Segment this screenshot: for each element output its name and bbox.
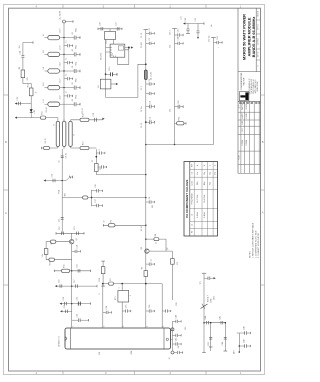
wire T1 bottom left: [42, 147, 97, 150]
svg-text:CHK D.MILLER 4-13: CHK D.MILLER 4-13: [251, 79, 253, 94]
svg-text:TP1: TP1: [200, 281, 202, 284]
svg-text:B 4188: B 4188: [246, 113, 248, 118]
bypass cap C1: [64, 32, 80, 39]
svg-text:BANDS A-B 66-88MHz: BANDS A-B 66-88MHz: [251, 17, 256, 58]
svg-text:C15: C15: [77, 264, 79, 267]
svg-text:C49: C49: [244, 340, 246, 343]
svg-text:R2: R2: [177, 262, 179, 264]
svg-text:.12uH: .12uH: [60, 45, 62, 50]
wire U1 left pins: [106, 48, 111, 53]
svg-text:C16: C16: [58, 280, 60, 283]
capacitor C17 series: [59, 217, 64, 222]
svg-text:R13: R13: [83, 142, 85, 145]
svg-text:C55: C55: [178, 100, 180, 103]
choke L2: [45, 52, 65, 56]
svg-text:C46: C46: [222, 342, 224, 345]
resistor R4: [40, 111, 45, 119]
bypass cap C7: [64, 58, 73, 65]
wire U1 pins right: [125, 48, 129, 50]
svg-text:C1: C1: [191, 172, 193, 174]
capacitor C22 inline: [60, 284, 62, 287]
wire bias feed: [23, 43, 33, 56]
wire module feeds: [103, 284, 162, 328]
svg-text:C5 .01: C5 .01: [141, 123, 143, 128]
wire to driver bus: [96, 174, 146, 176]
transformer T1 winding 2: [63, 121, 66, 146]
svg-text:C14: C14: [77, 245, 79, 248]
svg-text:U1: U1: [112, 53, 114, 55]
capacitor C61: [239, 344, 250, 347]
wire detector: [237, 333, 240, 352]
terminal bar top: [144, 29, 149, 31]
capacitor C37: [146, 259, 155, 266]
choke L4: [45, 85, 65, 89]
wire emitter network: [54, 270, 90, 272]
svg-text:R25: R25: [179, 117, 181, 120]
capacitor C57 inline: [221, 321, 223, 324]
svg-text:R5 10: R5 10: [141, 226, 143, 231]
svg-text:1 202: 1 202: [242, 121, 244, 125]
resistor R21: [108, 224, 115, 227]
trimmer box T2: [118, 291, 129, 303]
resistor R24: [171, 259, 175, 265]
op-amp U1 bias IC: [110, 44, 125, 57]
svg-text:1u: 1u: [66, 74, 68, 76]
capacitor C36: [146, 197, 155, 204]
svg-text:+: +: [218, 47, 220, 48]
svg-text:T1: T1: [54, 124, 56, 126]
terminal arrow U1 output: [131, 46, 133, 48]
resistor R23: [144, 271, 148, 277]
svg-text:DESCR: DESCR: [246, 103, 248, 109]
svg-text:1: 1: [119, 288, 121, 289]
svg-text:47p: 47p: [197, 172, 199, 175]
capacitor C53: [174, 351, 183, 354]
svg-text:10u: 10u: [19, 46, 21, 49]
svg-text:C31: C31: [77, 297, 79, 300]
wire regulator output to driver bus: [106, 64, 146, 97]
capacitor C59: [224, 337, 228, 351]
feedback loop Q1: [46, 242, 72, 260]
svg-text:C10: C10: [51, 174, 53, 177]
junction square: [128, 47, 130, 49]
svg-text:R15: R15: [64, 264, 66, 267]
capacitor C16a: [92, 189, 103, 192]
resistor R27: [175, 122, 187, 125]
svg-text:.01: .01: [72, 49, 74, 52]
svg-text:C53 .1: C53 .1: [170, 30, 172, 35]
capacitor C20: [72, 245, 81, 253]
wire second bus: [174, 29, 176, 145]
wire node C stub: [91, 190, 93, 207]
terminal bar: [211, 37, 216, 39]
wire pallet crossing: [60, 302, 91, 304]
svg-text:C21: C21: [116, 22, 118, 25]
capacitor C33: [146, 92, 155, 95]
resistor R15: [83, 196, 88, 199]
capacitor C65: [175, 29, 184, 37]
svg-text:82p: 82p: [209, 182, 211, 185]
drawn/checked block text: [248, 78, 259, 94]
resistor R5: [80, 118, 89, 121]
bypass cap C6: [64, 41, 73, 48]
svg-text:3: 3: [123, 326, 125, 327]
svg-text:C30: C30: [63, 297, 65, 300]
svg-text:3. COMPACT MODS S/N 202: 3. COMPACT MODS S/N 202: [257, 233, 260, 258]
junction nodes detector: [239, 345, 241, 347]
bypass cap C4: [64, 82, 80, 89]
svg-text:C2,C3: C2,C3: [191, 181, 193, 186]
power module U2: [65, 328, 171, 349]
svg-text:C8: C8: [100, 168, 102, 170]
svg-text:C32: C32: [64, 305, 66, 308]
capacitor C32: [146, 79, 155, 86]
svg-text:1.5k: 1.5k: [42, 254, 44, 258]
capacitor C47: [162, 309, 171, 312]
zone ticks right: [261, 95, 265, 285]
svg-text:C44: C44: [205, 316, 207, 319]
capacitor C41 inline dark: [78, 302, 80, 306]
revision table text: [239, 102, 248, 160]
resistor R19: [61, 269, 69, 272]
svg-text:SH 1/1: SH 1/1: [258, 24, 260, 30]
capacitor C26 inline: [117, 27, 119, 30]
svg-text:C54: C54: [170, 45, 172, 48]
svg-text:PA COMPONENT VALUES: PA COMPONENT VALUES: [185, 180, 189, 218]
svg-text:C23: C23: [17, 97, 19, 100]
connector J1: [63, 20, 74, 23]
capacitor C51: [173, 334, 182, 337]
svg-text:C40: C40: [176, 315, 178, 318]
svg-text:R20 4.7: R20 4.7: [208, 295, 210, 302]
svg-text:C35: C35: [125, 305, 127, 308]
svg-text:680p: 680p: [76, 78, 78, 82]
terminal bars: [56, 232, 84, 234]
svg-text:T1: T1: [74, 134, 76, 136]
junction node B: [95, 156, 97, 158]
label sense: [208, 295, 216, 303]
wire control stub: [183, 22, 204, 31]
svg-text:C41: C41: [176, 338, 178, 341]
company name text: [240, 72, 246, 90]
svg-text:1k: 1k: [35, 92, 37, 94]
svg-text:.12uH: .12uH: [60, 61, 62, 66]
capacitor C56 inline: [207, 321, 209, 324]
svg-text:C3: C3: [149, 79, 151, 81]
svg-text:C42: C42: [185, 327, 187, 330]
svg-text:R7: R7: [92, 160, 94, 162]
svg-text:C2 680: C2 680: [141, 42, 143, 48]
svg-text:R9 10: R9 10: [50, 261, 52, 266]
label module pins: [73, 326, 166, 327]
svg-text:10p: 10p: [178, 346, 180, 349]
svg-text:R6 10: R6 10: [45, 138, 47, 143]
svg-text:.12uH: .12uH: [60, 78, 62, 83]
zone labels: [5, 4, 264, 375]
wire branch to node C: [62, 197, 146, 199]
svg-text:R1: R1: [191, 231, 193, 233]
label under module: [98, 350, 133, 354]
svg-text:B: B: [5, 140, 7, 144]
bypass cap C3: [64, 66, 80, 73]
svg-text:66-74 MHz: 66-74 MHz: [197, 195, 199, 203]
capacitor C46: [146, 305, 155, 313]
wire sense branch: [204, 323, 225, 351]
junction nodes sense: [210, 322, 212, 324]
svg-text:B: B: [262, 140, 264, 144]
sensor coil: [171, 328, 174, 331]
feedback loop Q2: [146, 239, 166, 251]
wire Q2 output: [149, 251, 172, 300]
svg-text:C4: C4: [149, 101, 151, 103]
svg-text:C34: C34: [106, 306, 108, 309]
wire regulator bus: [105, 40, 107, 98]
svg-text:0.10uH: 0.10uH: [204, 212, 206, 218]
wire output: [171, 321, 173, 351]
svg-text:23-8703: 23-8703: [258, 38, 260, 45]
svg-text:680p: 680p: [76, 95, 78, 99]
transistor Q2: [145, 249, 149, 253]
junction node F: [145, 121, 147, 123]
capacitor C64: [214, 36, 223, 44]
svg-text:R12 51: R12 51: [82, 108, 84, 114]
resistor R8: [80, 146, 89, 149]
resistor R2: [21, 70, 31, 88]
svg-text:C3 .1: C3 .1: [141, 86, 143, 90]
svg-text:19D902: 19D902: [246, 140, 248, 146]
capacitor C55 to arrow: [204, 277, 216, 280]
wire interstage vertical: [61, 149, 63, 233]
choke L1: [45, 35, 65, 39]
svg-text:39p: 39p: [204, 172, 206, 175]
terminal bar: [102, 224, 104, 226]
svg-text:C36: C36: [149, 305, 151, 308]
trimmer network box: [105, 32, 116, 40]
capacitor C10 series: [21, 56, 24, 70]
svg-text:2 317: 2 317: [242, 128, 244, 132]
title block left border: [237, 8, 239, 173]
capacitor C19 inline right: [77, 232, 79, 235]
capacitor C44: [103, 306, 112, 314]
svg-text:C26: C26: [95, 184, 97, 187]
svg-text:R8: R8: [51, 242, 53, 244]
svg-text:C5: C5: [149, 117, 151, 119]
svg-text:L6 1.5uH: L6 1.5uH: [151, 72, 153, 80]
svg-text:C11: C11: [59, 219, 61, 222]
svg-text:SECTOR: SECTOR: [243, 77, 245, 85]
notes text right edge: [249, 222, 260, 258]
wire Q1 emitter down: [71, 244, 73, 328]
svg-text:NOTES:: NOTES:: [249, 250, 251, 258]
terminal bar: [172, 28, 177, 30]
svg-text:C20: C20: [99, 22, 101, 25]
svg-text:A: A: [262, 211, 264, 215]
svg-text:C48: C48: [244, 327, 246, 330]
svg-text:1/2W: 1/2W: [211, 298, 213, 303]
sheet cell dividers: [256, 19, 260, 21]
terminal bar: [41, 147, 43, 149]
divider under title: [238, 71, 261, 73]
svg-text:360: 360: [64, 193, 66, 196]
svg-text:R11 47: R11 47: [46, 107, 48, 113]
choke L5: [45, 102, 65, 106]
wire final bias bus: [103, 283, 162, 285]
svg-text:50W: 50W: [131, 350, 133, 354]
zone ticks top: [63, 5, 206, 9]
junction nodes: [102, 283, 104, 285]
terminal bars: [54, 270, 90, 272]
svg-text:CR1: CR1: [34, 110, 36, 114]
wire T1 top stubs: [58, 118, 103, 122]
drawing title text: [242, 14, 256, 60]
capacitor C58: [209, 337, 213, 347]
svg-text:C51: C51: [195, 18, 197, 21]
wire sense bus: [203, 273, 205, 352]
bypass cap C8: [64, 74, 73, 81]
capacitor C67: [175, 100, 184, 108]
company logo: [239, 92, 249, 101]
svg-text:A+: A+: [210, 24, 213, 26]
svg-text:C50: C50: [185, 18, 187, 21]
wire bus link: [146, 144, 214, 146]
svg-text:R1: R1: [110, 278, 112, 280]
junction node C: [91, 197, 93, 199]
terminal bars: [98, 28, 122, 30]
bypass cap C5: [64, 99, 80, 106]
capacitor C62: [186, 29, 190, 34]
svg-text:680p: 680p: [76, 62, 78, 66]
svg-text:19D901: 19D901: [242, 140, 244, 146]
svg-text:C53: C53: [178, 29, 180, 32]
wire branch predriver: [103, 224, 146, 226]
resistor R20 column: [101, 261, 105, 286]
transformer T1 winding 1: [56, 121, 59, 146]
svg-text:5: 5: [163, 326, 165, 327]
svg-text:1u: 1u: [66, 91, 68, 93]
svg-text:.01: .01: [72, 32, 74, 35]
wire driver bus: [145, 30, 147, 329]
zone ticks bottom: [63, 371, 206, 375]
svg-text:5: 5: [130, 295, 132, 296]
svg-text:.01: .01: [72, 82, 74, 85]
resistor R17: [44, 249, 48, 255]
wire Q1 collector: [71, 233, 73, 239]
wire feedback loop U1: [117, 48, 128, 65]
capacitor C30: [146, 28, 155, 35]
svg-text:.12uH: .12uH: [60, 95, 62, 100]
svg-text:680p: 680p: [76, 28, 78, 32]
diode CR2 diagonal: [201, 304, 208, 309]
svg-text:R21: R21: [208, 342, 210, 345]
svg-text:120p: 120p: [197, 181, 199, 185]
wire crossing at Q1 base: [56, 232, 84, 234]
transformer T1 winding 3: [69, 121, 72, 146]
junction dots driver bus: [61, 37, 204, 324]
bypass cap C2: [64, 49, 80, 56]
svg-text:R5: R5: [111, 220, 113, 222]
svg-text:R10: R10: [27, 84, 29, 87]
capacitor C13: [98, 165, 107, 168]
svg-text:C1: C1: [149, 28, 151, 30]
capacitor C16b: [92, 204, 103, 207]
coupling cap C11 with input arrow: [15, 97, 32, 105]
svg-text:0.12uH: 0.12uH: [197, 212, 199, 218]
capacitor C35: [146, 117, 155, 124]
wire collector feed bus: [213, 38, 215, 145]
capacitor C12: [96, 148, 105, 154]
capacitor C40 inline: [65, 302, 67, 305]
svg-text:C9 .01: C9 .01: [66, 153, 68, 159]
svg-text:J2: J2: [169, 358, 171, 360]
svg-text:51: 51: [156, 242, 158, 244]
wire trimmer top: [98, 29, 122, 32]
resistor R7: [44, 146, 50, 149]
resistor R14: [95, 164, 99, 172]
junction node E: [145, 63, 147, 65]
inductor L6: [144, 70, 147, 80]
svg-text:C24: C24: [20, 51, 22, 54]
svg-text:27p: 27p: [214, 172, 216, 175]
border frame outer: [4, 5, 265, 375]
capacitor C31: [146, 38, 155, 45]
svg-text:A+ 13.8V: A+ 13.8V: [59, 10, 62, 19]
svg-text:C2: C2: [149, 38, 151, 40]
terminal bar sense bus: [202, 352, 206, 354]
resistor R25: [109, 282, 114, 285]
capacitor C60: [239, 331, 250, 334]
wire lower crossing: [55, 285, 97, 287]
wire rf input line: [15, 117, 58, 119]
svg-text:Q2: Q2: [167, 248, 169, 250]
node stub: [32, 41, 34, 43]
svg-text:C4 10u: C4 10u: [141, 106, 143, 112]
svg-text:SCH D: SCH D: [258, 51, 260, 57]
capacitor C25 inline: [101, 27, 103, 30]
wire box to IC: [106, 40, 113, 45]
resistor R16: [50, 240, 56, 243]
svg-text:C45: C45: [219, 316, 221, 319]
svg-text:10: 10: [104, 221, 106, 223]
svg-text:RT1: RT1: [115, 296, 117, 300]
svg-text:REF: REF: [191, 164, 193, 167]
capacitor C29 to arrow: [93, 113, 105, 122]
resistor R20: [101, 267, 105, 274]
svg-text:C17: C17: [74, 280, 76, 283]
border frame inner: [9, 8, 261, 371]
capacitor C63: [197, 31, 200, 38]
divider above approval table: [238, 100, 261, 102]
title/sheet divider column: [255, 8, 257, 71]
svg-text:74-88 MHz: 74-88 MHz: [204, 195, 206, 203]
wire node B vertical: [95, 149, 97, 174]
svg-text:.01: .01: [72, 99, 74, 102]
svg-text:1. REF DES COMPONENTS PER TAB: 1. REF DES COMPONENTS PER TABLE: [251, 222, 254, 258]
table header dashes: [239, 102, 260, 104]
svg-text:U2 M57774: U2 M57774: [58, 335, 60, 347]
revision / approval table: [238, 101, 261, 173]
svg-text:.12uH: .12uH: [60, 28, 62, 33]
crystal Y1 box: [100, 79, 111, 89]
svg-text:K1: K1: [98, 85, 100, 87]
choke L3: [45, 69, 65, 73]
svg-text:C1 .01: C1 .01: [141, 33, 143, 38]
svg-text:C33: C33: [77, 314, 79, 317]
resistor R22: [154, 238, 159, 241]
svg-text:R3: R3: [142, 267, 144, 269]
capacitor C23 inline: [76, 284, 78, 287]
svg-text:2: 2: [104, 326, 106, 327]
capacitor C18 inline left: [62, 232, 64, 235]
